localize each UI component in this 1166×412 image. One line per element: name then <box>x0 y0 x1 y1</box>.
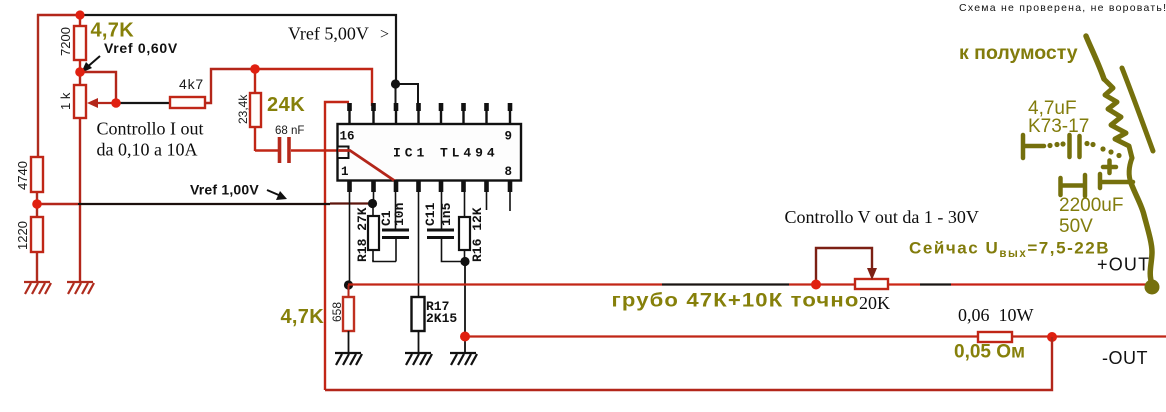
svg-text:23,4k: 23,4k <box>236 94 250 124</box>
potentiometer 1k leads <box>79 72 81 282</box>
wiper arrow of 1k <box>93 102 116 104</box>
node dot vref1 left <box>32 199 42 209</box>
svg-text:Controllo V out da 1 - 30V: Controllo V out da 1 - 30V <box>785 207 979 227</box>
node dot pin1 rail <box>344 280 353 289</box>
wire pin13 elbow black <box>395 84 418 106</box>
ground black mid1 <box>335 353 362 365</box>
hand core diagonal <box>1122 68 1153 151</box>
node dot -OUT junction <box>1047 332 1057 342</box>
svg-text:1 k: 1 k <box>58 92 73 110</box>
hand wire to coil <box>1086 36 1104 79</box>
IC top pin stubs <box>347 103 512 124</box>
IC bottom pin stubs <box>347 180 512 192</box>
wire R16 node down to ground <box>464 261 466 353</box>
svg-text:7200: 7200 <box>58 27 73 56</box>
svg-text:4k7: 4k7 <box>179 76 204 92</box>
svg-text:+OUT: +OUT <box>1097 255 1150 275</box>
resistor R18 <box>372 203 374 261</box>
svg-text:>: > <box>380 26 389 43</box>
svg-text:R16 12K: R16 12K <box>470 207 485 262</box>
ground red left1 <box>24 282 51 294</box>
svg-text:IC1 TL494: IC1 TL494 <box>393 146 498 161</box>
svg-text:грубо 47К+10К точно: грубо 47К+10К точно <box>612 291 860 312</box>
capacitor C1 <box>395 192 397 229</box>
IC1 TL494 body <box>338 124 522 181</box>
capacitor 68nF plates <box>280 137 290 163</box>
svg-text:50V: 50V <box>1059 216 1093 237</box>
resistor 23,4k <box>250 93 261 127</box>
resistor 4k7 <box>170 97 205 108</box>
svg-text:Схема не проверена, не вороват: Схема не проверена, не воровать! <box>959 2 1166 14</box>
red wire into notch and diagonal to pin3 <box>338 151 395 182</box>
svg-text:68 nF: 68 nF <box>275 125 304 137</box>
wire wiper dot to 4k7 black <box>116 102 170 104</box>
hand coil <box>1104 79 1132 158</box>
wire node0.6 to wiper dot <box>80 72 116 103</box>
hand cap 4,7uF plates <box>1070 135 1080 157</box>
resistor 7200 leads <box>79 15 81 72</box>
wire 4k7 to node A <box>205 69 255 103</box>
capacitor C11 <box>441 192 443 229</box>
svg-text:0,05 Ом: 0,05 Ом <box>954 342 1025 363</box>
svg-text:1220: 1220 <box>15 221 30 250</box>
hand blob +OUT <box>1145 280 1160 295</box>
wire pin2 to node <box>373 192 375 204</box>
svg-text:16: 16 <box>340 130 355 144</box>
potentiometer 20K <box>855 279 888 289</box>
svg-text:658: 658 <box>330 302 344 322</box>
capacitor 68nF leads <box>255 149 338 151</box>
hand cap 2200uF left T <box>1061 178 1084 195</box>
svg-text:C11: C11 <box>423 202 438 226</box>
hand plus sign <box>1103 161 1116 174</box>
svg-text:2K15: 2K15 <box>426 311 457 326</box>
wire pin4 down through R17 <box>418 192 420 297</box>
potentiometer 1k <box>74 85 86 118</box>
svg-text:Vref 0,60V: Vref 0,60V <box>104 40 178 56</box>
wire pin16 long red <box>325 102 349 390</box>
svg-text:Vref 1,00V: Vref 1,00V <box>190 182 259 198</box>
wire Vref 5,00V top black rail <box>80 15 396 84</box>
hand cap 2200uF plate1 <box>1083 175 1088 196</box>
resistor R17 <box>412 297 425 331</box>
bottom rail <box>325 337 1052 390</box>
wire node A to pin15 <box>255 69 372 106</box>
wire pin1 down <box>349 192 351 285</box>
wire Vref 1,00V <box>37 203 78 205</box>
svg-text:K73-17: K73-17 <box>1028 116 1089 137</box>
arrow to node 0,60V <box>85 56 100 69</box>
svg-text:4,7K: 4,7K <box>281 306 325 328</box>
resistor 7200 <box>74 26 86 60</box>
hand dots left <box>1047 143 1052 148</box>
hand stroke coil to cap junction <box>1129 158 1132 183</box>
svg-text:4,7K: 4,7K <box>91 20 135 42</box>
resistor 1220 leads <box>36 204 38 282</box>
svg-text:1n5: 1n5 <box>439 202 454 226</box>
node dot top-left <box>75 10 84 19</box>
resistor 4740 leads <box>36 192 38 204</box>
resistor 23,4k leads <box>254 69 256 151</box>
svg-text:0,06 10W: 0,06 10W <box>958 305 1034 325</box>
node dot 24K top <box>250 64 260 74</box>
node dot R16 C11 <box>460 257 469 266</box>
node dot wiper <box>111 98 121 108</box>
svg-text:20K: 20K <box>859 293 890 313</box>
resistor 4740 <box>31 157 43 192</box>
resistor 1220 <box>31 217 43 252</box>
hand cap 4,7uF left T <box>1023 135 1044 158</box>
node dot 0,60V <box>75 67 85 77</box>
svg-text:9: 9 <box>505 130 513 144</box>
node dot pin2 vref1 <box>368 199 377 208</box>
svg-text:10n: 10n <box>392 202 407 226</box>
pin7 pin8 dangling <box>487 192 511 211</box>
svg-text:8: 8 <box>505 165 513 179</box>
svg-text:da 0,10 a 10A: da 0,10 a 10A <box>97 140 198 160</box>
main output rail <box>348 283 662 285</box>
ground black mid2 <box>405 353 432 365</box>
hand cap 2200uF plate2 and lead <box>1100 174 1133 188</box>
hand stroke down to +OUT <box>1131 183 1152 284</box>
IC notch <box>338 147 349 159</box>
node dot sense <box>460 332 470 342</box>
svg-text:-OUT: -OUT <box>1102 348 1148 368</box>
wire pin14 black vertical <box>395 84 397 106</box>
svg-text:1: 1 <box>341 165 349 179</box>
node dot vref5 <box>391 79 400 88</box>
svg-text:R18 27K: R18 27K <box>355 207 370 262</box>
-OUT sense wire <box>465 335 978 337</box>
svg-text:4740: 4740 <box>15 161 30 190</box>
wire R18 bottom to C1 bottom <box>373 239 396 262</box>
svg-text:Vref 5,00V: Vref 5,00V <box>288 24 369 44</box>
wire left vertical red <box>37 14 39 157</box>
svg-text:Controllo I out: Controllo I out <box>97 119 204 139</box>
hand dots right <box>1084 141 1089 146</box>
svg-text:к полумосту: к полумосту <box>959 42 1078 64</box>
resistor 0,06 <box>978 332 1012 342</box>
wire top-left horizontal red <box>37 14 80 16</box>
wiper loop 20K <box>816 248 872 284</box>
resistor 658 <box>348 285 350 297</box>
node dot rail-wiper <box>811 280 821 290</box>
ground black mid3 <box>450 353 477 365</box>
resistor R16 <box>464 192 466 262</box>
svg-text:2200uF: 2200uF <box>1059 195 1123 216</box>
arrow to Vref1 wire <box>267 190 281 196</box>
svg-text:24K: 24K <box>267 94 305 116</box>
ground red left2 <box>67 282 94 294</box>
